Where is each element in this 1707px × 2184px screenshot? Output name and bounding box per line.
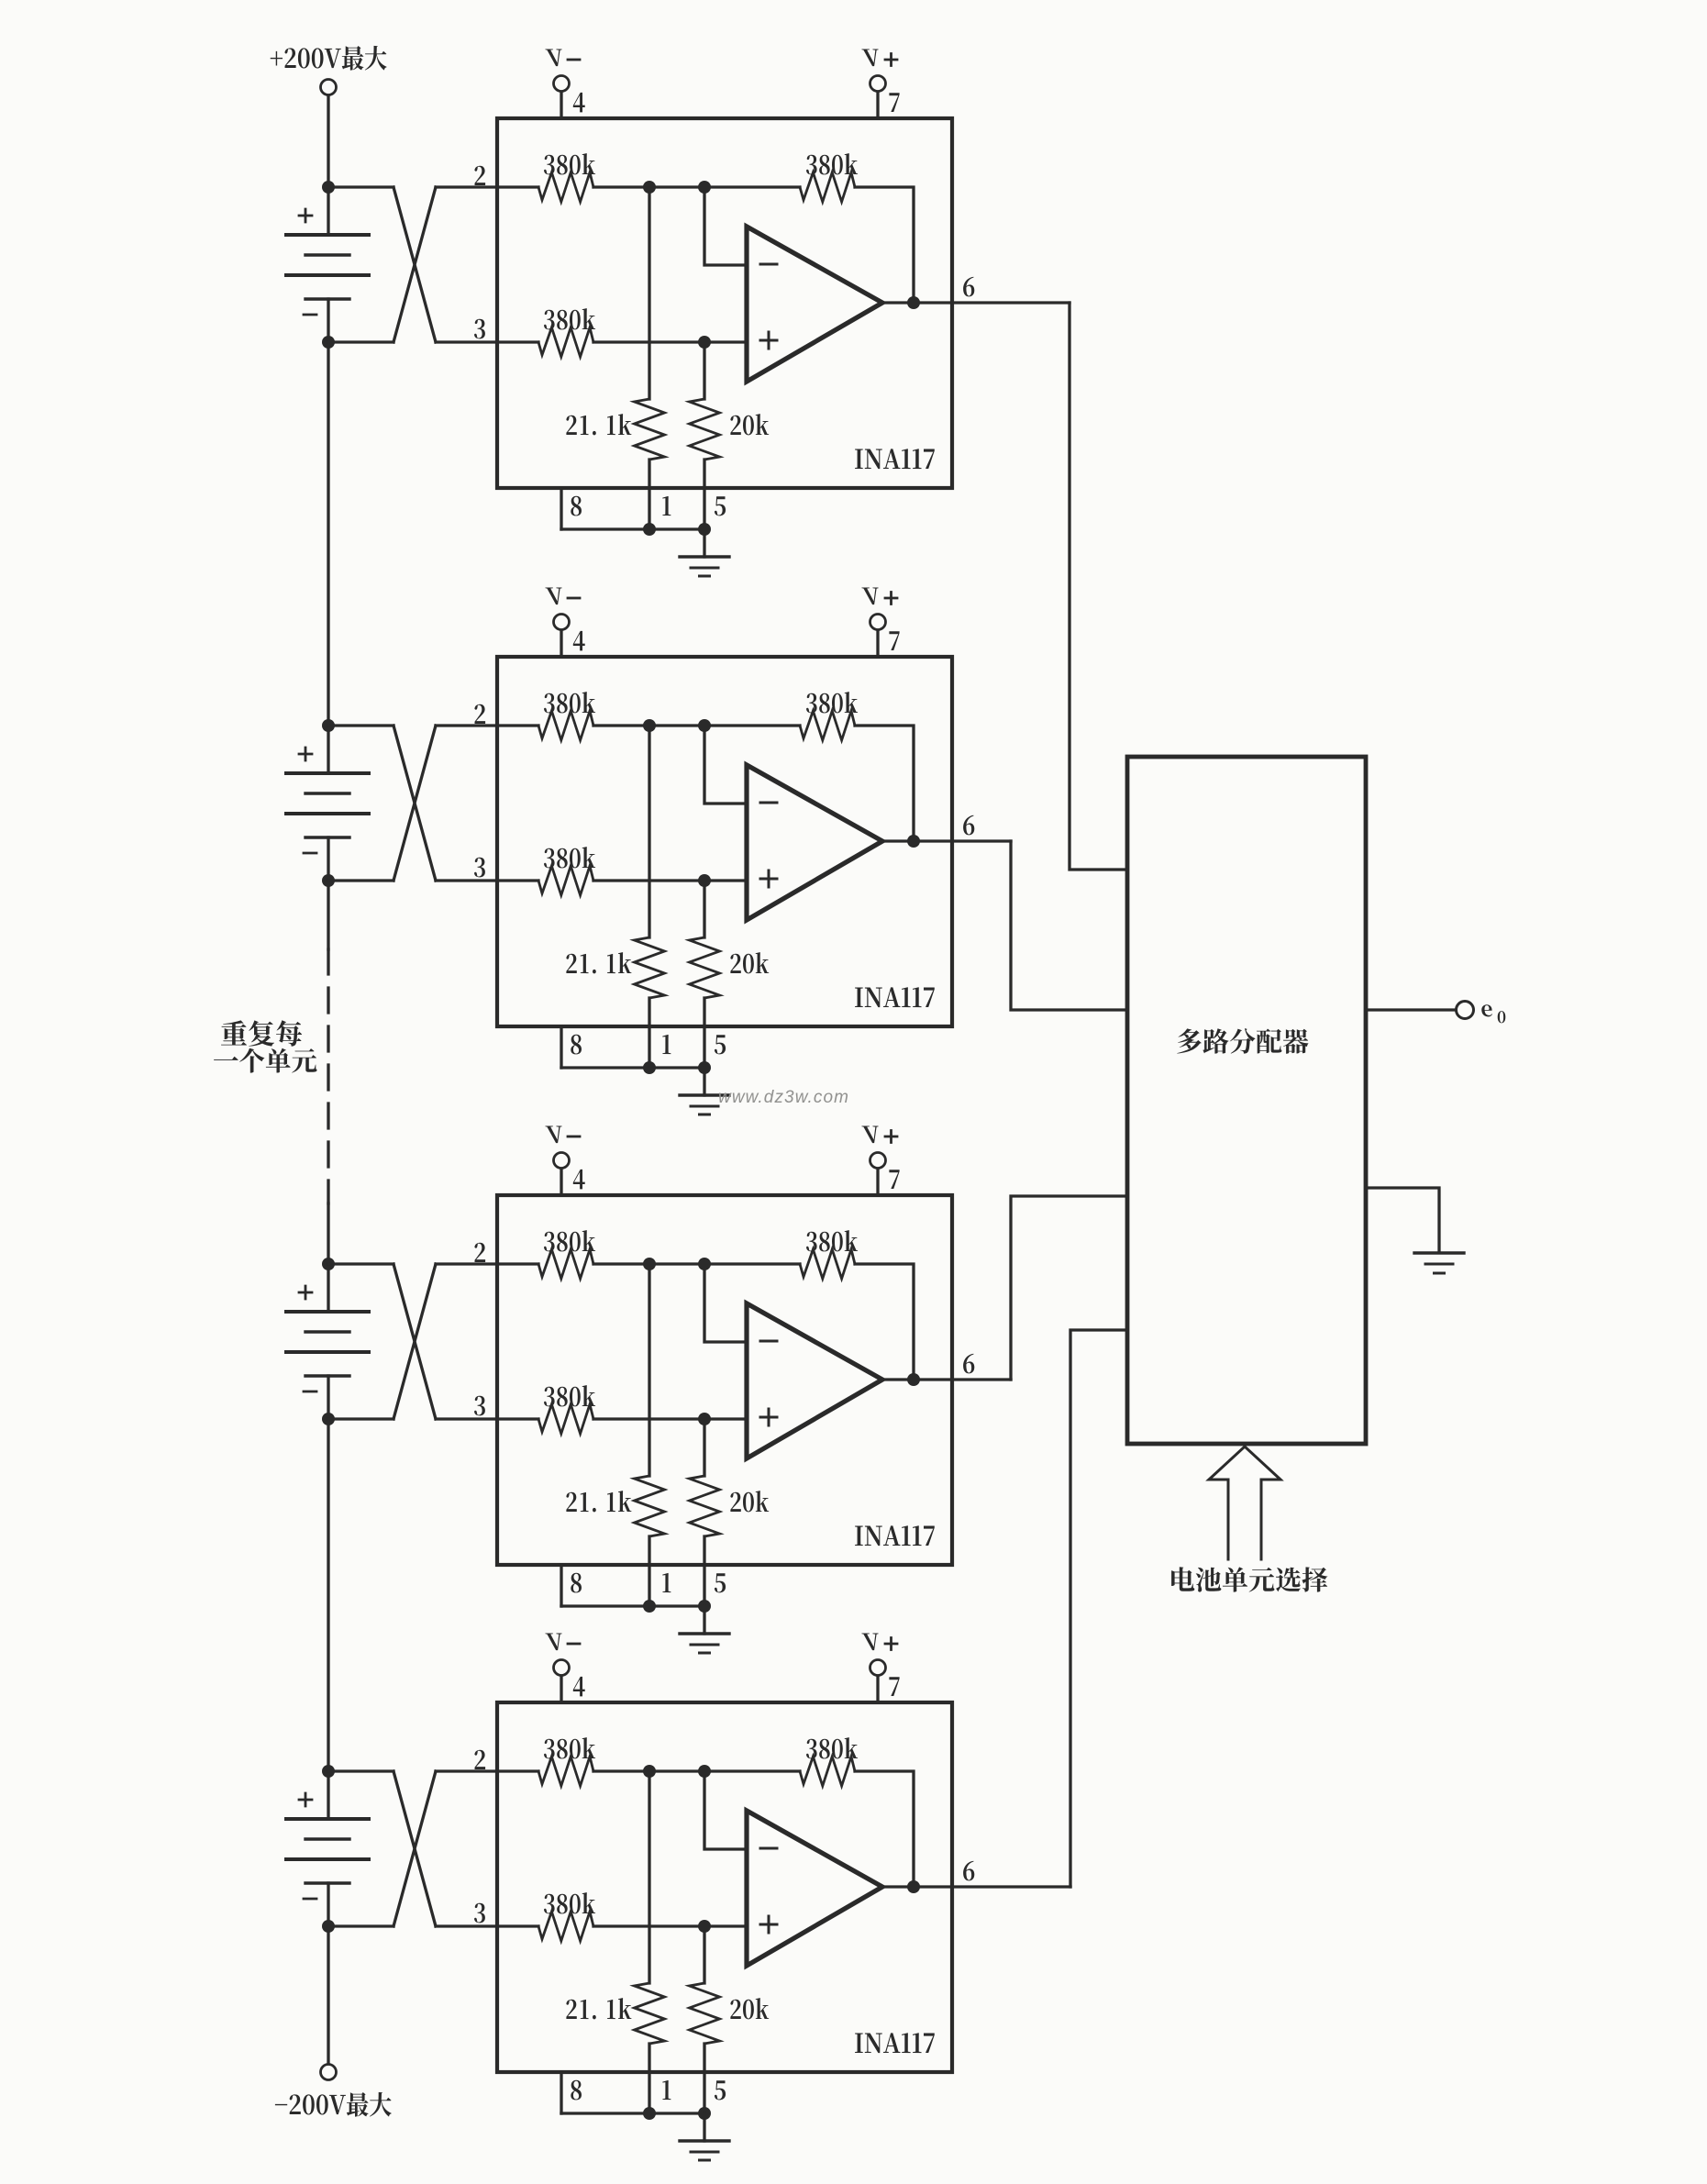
wire: B3- to X crossing — [328, 1417, 393, 1420]
V- power terminal U2 — [554, 615, 570, 630]
multiplexer box (多路分配器) — [1127, 757, 1366, 1444]
pin label 5 U2 — [715, 1035, 726, 1054]
resistor R1b 380k (feedback) — [800, 172, 855, 202]
node: pin5 junction U3 — [698, 1600, 711, 1613]
pin label 8 U1 — [571, 496, 582, 516]
resistor R3a 380k (pin2 input) — [538, 1249, 593, 1279]
label 380k R1c — [544, 308, 595, 329]
pin 8 stub U3 — [560, 1565, 562, 1606]
label V+ U4 — [861, 1634, 878, 1651]
wire: R3a to nodes A,B U3 — [593, 1262, 800, 1265]
wire: pin 2 lead into U2 — [436, 724, 538, 726]
wire: R2b to feedback corner U2 — [855, 726, 914, 841]
label 380k R3b — [806, 1230, 858, 1251]
pin label 7 U2 — [889, 631, 899, 650]
node: battery B4 + — [322, 1765, 335, 1778]
op-amp - input mark U1 — [760, 263, 777, 266]
resistor R1c 380k (pin3 input) — [538, 327, 593, 357]
node: + input junction U4 — [698, 1920, 711, 1933]
wire: R1a to nodes A,B U1 — [593, 185, 800, 188]
label 多路分配器 — [1177, 1028, 1308, 1054]
node: pin1 junction U3 — [643, 1600, 656, 1613]
node: output junction U3 — [907, 1373, 920, 1386]
wire: B3+ to X crossing — [328, 1262, 393, 1265]
label 重复每 (repeat each) — [221, 1020, 302, 1046]
pin 8 stub U2 — [560, 1026, 562, 1068]
svg-text:www.dz3w.com: www.dz3w.com — [718, 1088, 849, 1107]
op-amp U4 triangle — [747, 1811, 882, 1966]
node: output junction U2 — [907, 835, 920, 848]
wire: B4+ to X crossing — [328, 1769, 393, 1772]
wire: rail B4- to -200V terminal — [327, 1926, 329, 2064]
resistor R1a 380k (pin2 input) — [538, 172, 593, 202]
wire: B1- to X crossing — [328, 340, 393, 343]
pin label 2 U3 — [474, 1243, 485, 1262]
wire: B2- to X crossing — [328, 879, 393, 881]
resistor R4b 380k (feedback) — [800, 1757, 855, 1786]
pin label 5 U3 — [715, 1573, 726, 1592]
label INA117 U1 — [855, 449, 935, 469]
battery B2 — [286, 726, 369, 881]
node: battery B1 - — [322, 336, 335, 349]
node B U4 (feedback/- input junction) — [698, 1765, 711, 1778]
wire: B1+ to X crossing — [328, 185, 393, 188]
battery B3 — [286, 1264, 369, 1419]
pin label 2 U4 — [474, 1750, 485, 1769]
resistor R3e 20k — [703, 1419, 705, 1476]
resistor R2b 380k (feedback) — [800, 711, 855, 740]
wire: +200V terminal to battery B1 — [327, 95, 329, 187]
wire: node B to op-amp - input U1 — [704, 187, 747, 265]
wire: X crossing diagonal down U3 — [393, 1264, 436, 1419]
pin 7 stub U3 — [876, 1169, 879, 1195]
V- power terminal U3 — [554, 1153, 570, 1169]
label V+ U2 — [861, 588, 878, 605]
wire: pin 3 lead into U2 — [436, 879, 538, 881]
resistor R1e 20k — [703, 342, 705, 399]
wire: U1 output routing to multiplexer — [1070, 303, 1127, 870]
wire: rail B3- to B4+ — [327, 1419, 329, 1771]
terminal -200V max — [321, 2065, 337, 2080]
label 电池单元选择 — [1171, 1567, 1327, 1591]
wire: dashed rail (repeat each cell) — [327, 949, 329, 1203]
pin label 3 U4 — [474, 1903, 485, 1923]
pin label 4 U2 — [573, 631, 585, 651]
wire: R4b to feedback corner U4 — [855, 1771, 914, 1887]
op-amp + input mark U3 — [760, 1409, 777, 1425]
op-amp + input mark U2 — [760, 870, 777, 887]
wire: U2 output routing to multiplexer — [1011, 841, 1127, 1010]
resistor R2d 21.1k — [648, 726, 650, 937]
wire: pins 8-1-5 bottom bus U1 — [561, 527, 704, 530]
label 380k R4a — [544, 1737, 595, 1758]
node B U3 (feedback/- input junction) — [698, 1258, 711, 1270]
IC boundary box U3 — [497, 1195, 952, 1565]
pin 7 stub U1 — [876, 92, 879, 118]
pin label 6 U4 — [963, 1861, 974, 1881]
node: pin1 junction U1 — [643, 523, 656, 536]
resistor R4a 380k (pin2 input) — [538, 1757, 593, 1786]
wire: R2a to nodes A,B U2 — [593, 724, 800, 726]
node: output junction U4 — [907, 1880, 920, 1893]
pin label 7 U3 — [889, 1170, 899, 1189]
node: pin5 junction U4 — [698, 2107, 711, 2120]
wire: multiplexer to right ground — [1366, 1188, 1439, 1252]
resistor R4e 20k — [703, 1926, 705, 1983]
pin label 4 U1 — [573, 93, 585, 113]
label 20k R2e — [730, 952, 769, 973]
label 380k R4b — [806, 1737, 858, 1758]
wire: U4 output routing to multiplexer — [1070, 1330, 1127, 1887]
wire: output pin 6 U2 — [882, 839, 1011, 842]
node: pin1 junction U4 — [643, 2107, 656, 2120]
node B U1 (feedback/- input junction) — [698, 181, 711, 194]
label 380k R2c — [544, 847, 595, 868]
label 380k R2b — [806, 692, 858, 713]
label V- U1 — [545, 50, 561, 67]
label 一个单元 (cell) — [214, 1048, 317, 1073]
resistor R4d 21.1k — [648, 1771, 650, 1983]
pin label 3 U1 — [474, 319, 485, 339]
wire: X crossing diagonal up U1 — [393, 187, 436, 342]
node: battery B2 - — [322, 874, 335, 887]
wire: R4a to nodes A,B U4 — [593, 1769, 800, 1772]
wire: X crossing diagonal up U4 — [393, 1771, 436, 1926]
ground symbol U3 — [680, 1632, 729, 1635]
pin label 5 U1 — [715, 496, 726, 516]
node: pin5 junction U2 — [698, 1061, 711, 1074]
wire: pins 8-1-5 bottom bus U2 — [561, 1066, 704, 1069]
wire: node B to op-amp - input U2 — [704, 726, 747, 804]
wire: X crossing diagonal up U3 — [393, 1264, 436, 1419]
label 380k R4c — [544, 1892, 595, 1913]
label V- U3 — [545, 1126, 561, 1144]
pin label 4 U4 — [573, 1677, 585, 1697]
label INA117 U2 — [855, 987, 935, 1007]
wire: B4- to X crossing — [328, 1924, 393, 1927]
IC boundary box U2 — [497, 657, 952, 1026]
label e0 — [1481, 1004, 1505, 1023]
pin 7 stub U2 — [876, 630, 879, 657]
terminal +200V max — [321, 80, 337, 95]
label V- U4 — [545, 1634, 561, 1651]
wire: rail B2- to dashed section — [327, 881, 329, 949]
pin label 1 U3 — [662, 1573, 671, 1592]
op-amp - input mark U3 — [760, 1340, 777, 1343]
resistor R3b 380k (feedback) — [800, 1249, 855, 1279]
wire: pin5 to ground U4 — [703, 2113, 705, 2141]
resistor R4c 380k (pin3 input) — [538, 1912, 593, 1941]
wire: node B to op-amp - input U4 — [704, 1771, 747, 1849]
label 380k R1b — [806, 153, 858, 174]
wire: R2c to op-amp + input U2 — [593, 879, 747, 881]
wire: pin 3 lead into U4 — [436, 1924, 538, 1927]
wire: output pin 6 U1 — [882, 301, 1070, 304]
IC boundary box U4 — [497, 1702, 952, 2072]
wire: pin 2 lead into U4 — [436, 1769, 538, 1772]
label 21.1k R1d — [566, 414, 631, 435]
ground symbol U4 — [680, 2139, 729, 2142]
wire: pin 3 lead into U1 — [436, 340, 538, 343]
op-amp + input mark U1 — [760, 332, 777, 349]
label V+ U3 — [861, 1126, 878, 1144]
wire: X crossing diagonal up U2 — [393, 726, 436, 881]
V+ power terminal U2 — [870, 615, 886, 630]
label INA117 U3 — [855, 1525, 935, 1546]
resistor R3d 21.1k — [648, 1264, 650, 1476]
op-amp - input mark U4 — [760, 1847, 777, 1850]
node A U2 (R2a/R2d junction) — [643, 719, 656, 732]
node A U1 (R1a/R1d junction) — [643, 181, 656, 194]
resistor R2c 380k (pin3 input) — [538, 866, 593, 895]
wire: output pin 6 U4 — [882, 1885, 1070, 1888]
pin label 6 U2 — [963, 815, 974, 836]
pin label 4 U3 — [573, 1170, 585, 1190]
node: battery B1 + — [322, 181, 335, 194]
wire: pins 8-1-5 bottom bus U4 — [561, 2112, 704, 2114]
node: output junction U1 — [907, 296, 920, 309]
pin label 1 U4 — [662, 2080, 671, 2100]
resistor R3c 380k (pin3 input) — [538, 1404, 593, 1434]
pin 4 stub U3 — [560, 1169, 562, 1195]
wire: X crossing diagonal down U1 — [393, 187, 436, 342]
wire: R4c to op-amp + input U4 — [593, 1924, 747, 1927]
pin 7 stub U4 — [876, 1676, 879, 1702]
node: battery B2 + — [322, 719, 335, 732]
label INA117 U4 — [855, 2033, 935, 2053]
wire: pin 2 lead into U1 — [436, 185, 538, 188]
label 21.1k R3d — [566, 1491, 631, 1512]
pin label 6 U3 — [963, 1354, 974, 1374]
ground symbol (multiplexer) — [1414, 1251, 1464, 1254]
pin 4 stub U1 — [560, 92, 562, 118]
resistor R1d 21.1k — [648, 187, 650, 399]
pin 8 stub U4 — [560, 2072, 562, 2113]
wire: R1c to op-amp + input U1 — [593, 340, 747, 343]
wire: R3b to feedback corner U3 — [855, 1264, 914, 1380]
label 380k R3a — [544, 1230, 595, 1251]
pin 8 stub U1 — [560, 488, 562, 529]
pin label 1 U1 — [662, 496, 671, 516]
label +200V最大 — [271, 46, 387, 71]
node A U4 (R4a/R4d junction) — [643, 1765, 656, 1778]
V- power terminal U4 — [554, 1660, 570, 1676]
V+ power terminal U4 — [870, 1660, 886, 1676]
op-amp + input mark U4 — [760, 1916, 777, 1933]
op-amp U3 triangle — [747, 1303, 882, 1458]
pin label 6 U1 — [963, 277, 974, 297]
wire: pin 2 lead into U3 — [436, 1262, 538, 1265]
wire: B2+ to X crossing — [328, 724, 393, 726]
wire: pin5 to ground U3 — [703, 1606, 705, 1634]
IC boundary box U1 — [497, 118, 952, 488]
label 21.1k R4d — [566, 1998, 631, 2019]
op-amp U1 triangle — [747, 227, 882, 382]
pin label 2 U2 — [474, 704, 485, 724]
label V- U2 — [545, 588, 561, 605]
wire: X crossing diagonal down U4 — [393, 1771, 436, 1926]
wire: node B to op-amp - input U3 — [704, 1264, 747, 1342]
battery B1 — [286, 187, 369, 342]
terminal e0 — [1457, 1002, 1474, 1019]
label 20k R4e — [730, 1998, 769, 2019]
node B U2 (feedback/- input junction) — [698, 719, 711, 732]
wire: R3c to op-amp + input U3 — [593, 1417, 747, 1420]
resistor R2a 380k (pin2 input) — [538, 711, 593, 740]
wire: pin5 to ground U1 — [703, 529, 705, 557]
node: battery B3 + — [322, 1258, 335, 1270]
node: pin5 junction U1 — [698, 523, 711, 536]
op-amp - input mark U2 — [760, 802, 777, 804]
ground symbol U1 — [680, 555, 729, 558]
pin label 7 U4 — [889, 1677, 899, 1696]
node: + input junction U3 — [698, 1413, 711, 1425]
node A U3 (R3a/R3d junction) — [643, 1258, 656, 1270]
wire: dashed rail to B3+ — [327, 1203, 329, 1264]
wire: R1b to feedback corner U1 — [855, 187, 914, 303]
wire: rail B1- to B2+ — [327, 342, 329, 726]
label 380k R2a — [544, 692, 595, 713]
pin label 5 U4 — [715, 2080, 726, 2100]
node: + input junction U1 — [698, 336, 711, 349]
pin label 7 U1 — [889, 93, 899, 112]
node: battery B3 - — [322, 1413, 335, 1425]
battery B4 — [286, 1771, 369, 1926]
pin label 8 U4 — [571, 2080, 582, 2101]
label -200V最大 — [275, 2092, 392, 2117]
pin label 8 U3 — [571, 1573, 582, 1593]
label 21.1k R2d — [566, 952, 631, 973]
wire: X crossing diagonal down U2 — [393, 726, 436, 881]
resistor R2e 20k — [703, 881, 705, 937]
label 20k R1e — [730, 414, 769, 435]
pin label 1 U2 — [662, 1035, 671, 1054]
pin label 3 U3 — [474, 1396, 485, 1416]
V+ power terminal U3 — [870, 1153, 886, 1169]
wire: U3 output routing to multiplexer — [1011, 1196, 1127, 1380]
pin 4 stub U4 — [560, 1676, 562, 1702]
V+ power terminal U1 — [870, 76, 886, 92]
wire: pin5 to ground U2 — [703, 1068, 705, 1095]
node: pin1 junction U2 — [643, 1061, 656, 1074]
pin label 3 U2 — [474, 858, 485, 878]
wire: pins 8-1-5 bottom bus U3 — [561, 1604, 704, 1607]
wire: multiplexer output to e0 — [1366, 1008, 1456, 1011]
label 380k R1a — [544, 153, 595, 174]
label V+ U1 — [861, 50, 878, 67]
pin label 8 U2 — [571, 1035, 582, 1055]
V- power terminal U1 — [554, 76, 570, 92]
op-amp U2 triangle — [747, 765, 882, 920]
wire: pin 3 lead into U3 — [436, 1417, 538, 1420]
selection arrow into multiplexer — [1209, 1447, 1280, 1559]
label 20k R3e — [730, 1491, 769, 1512]
label 380k R3c — [544, 1385, 595, 1406]
node: battery B4 - — [322, 1920, 335, 1933]
ground symbol U2 — [680, 1093, 729, 1096]
wire: output pin 6 U3 — [882, 1378, 1011, 1380]
node: + input junction U2 — [698, 874, 711, 887]
pin 4 stub U2 — [560, 630, 562, 657]
pin label 2 U1 — [474, 166, 485, 185]
